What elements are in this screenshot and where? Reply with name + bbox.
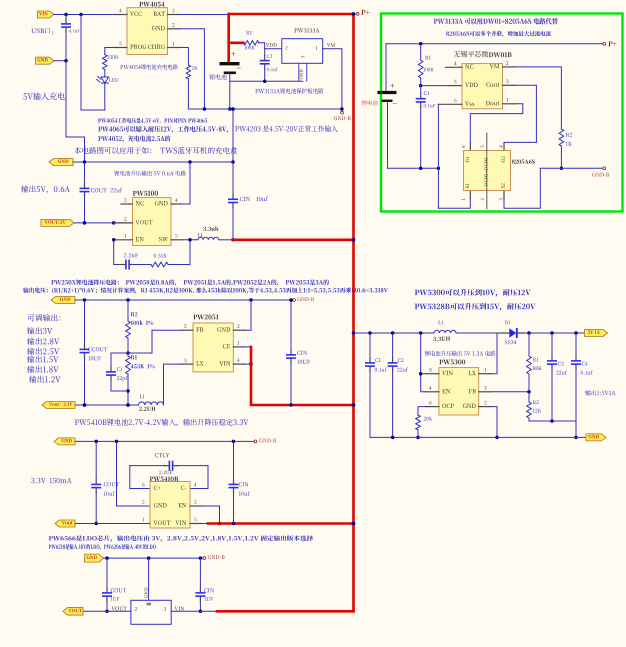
- wire GND-B line green: [540, 167, 602, 169]
- note PW250X row: [51, 279, 329, 285]
- port P+ green: [603, 41, 617, 46]
- note row2: [98, 125, 337, 133]
- power flag GND sec5: [586, 434, 606, 441]
- note boost 1.3A: [425, 351, 496, 356]
- pin 2 8205 stub: [481, 191, 487, 209]
- resistor 330R: [103, 55, 119, 70]
- pin 2 VM dw01: [490, 61, 515, 68]
- note 3.3V 150mA: [31, 478, 71, 483]
- capacitor C4 0.1uf: [571, 333, 593, 421]
- note LDO row1: [49, 535, 313, 541]
- power flag GND sec6: [54, 438, 75, 445]
- pin 5 8205 stub: [481, 133, 487, 151]
- green substitute box: [381, 14, 623, 212]
- wire LX to L1: [164, 364, 182, 405]
- pin 5 VDD dw01: [454, 80, 478, 87]
- note PW5410B title: [75, 419, 249, 427]
- power flag 5V 1A: [585, 330, 608, 337]
- wire PROG to R330: [105, 48, 114, 55]
- pin 4 VIN sec3: [219, 358, 245, 365]
- pin 1 CE: [223, 341, 245, 348]
- wire battery+ drop red: [227, 14, 230, 62]
- pin 3 LX: [181, 358, 204, 365]
- wire output red sec2: [233, 238, 355, 242]
- resistor 0.51R snubber: [134, 254, 168, 267]
- pin 5 FB: [181, 324, 203, 331]
- pin 1 VOUT sec6: [142, 518, 170, 525]
- pin 1 S1 8205: [462, 184, 469, 201]
- battery BT1 cell: [209, 52, 241, 80]
- capacitor CIN 1UF: [195, 558, 214, 613]
- wire VOUT net: [74, 221, 133, 225]
- battery BT2 cell: [362, 84, 397, 106]
- node spine junction sec2: [352, 238, 356, 242]
- node VIN junction at C4.7uf: [64, 13, 68, 17]
- pin 3 NC: [121, 198, 144, 205]
- wire LED anode return to VIN: [81, 15, 105, 111]
- wire GND net down to section2: [66, 61, 85, 162]
- wire R1 to VDD: [259, 43, 282, 49]
- chip U8 PW5410B: [150, 477, 190, 528]
- capacitor C1 0.1uf sec5: [365, 333, 387, 437]
- wire S2 to GND-B: [504, 168, 540, 208]
- wire SW to L1: [182, 239, 198, 241]
- node spine junction sec5 rail: [352, 331, 356, 335]
- power flag VOUT:5V: [41, 219, 74, 226]
- chip U1 PW4054: [127, 2, 168, 55]
- node B+ corner: [352, 12, 356, 16]
- wire B+ spine red: [352, 14, 355, 611]
- pin 5 VIN sec6: [175, 518, 202, 525]
- wire GND line sec3: [75, 298, 293, 302]
- capacitor C1 22pf: [106, 353, 128, 391]
- power flag VOUT sec7: [63, 608, 83, 616]
- resistor 2K: [186, 65, 197, 79]
- resistor 20k OCP: [416, 415, 432, 439]
- pin 4 EN sec5: [426, 386, 450, 393]
- capacitor CTLY 2.2UF: [130, 453, 208, 488]
- wire Dout to G1: [470, 104, 523, 151]
- power flag GND sec7: [85, 554, 104, 562]
- wire Vout net sec3: [75, 403, 139, 407]
- resistor R2 100k: [126, 300, 153, 355]
- note green title: [434, 18, 558, 24]
- wire VDD green: [421, 85, 462, 87]
- pin 3 S2 8205: [499, 183, 505, 200]
- wire GND pin riser sec3: [245, 300, 251, 330]
- wire BAT to B+ net: [180, 14, 229, 16]
- chip U9 LDO: [131, 600, 171, 624]
- pin 6 G1 8205: [462, 145, 469, 162]
- pin 2 GND sec6: [142, 500, 166, 507]
- capacitor CCOUT 10UF: [80, 300, 108, 407]
- capacitor COUT 1UF: [102, 558, 126, 613]
- capacitor 4.7uf input: [61, 15, 79, 61]
- pin 4 VCC: [114, 9, 142, 16]
- wire VOUT net sec6: [75, 523, 150, 525]
- wire Cout to G2: [504, 85, 536, 150]
- resistor R1 100R green: [418, 44, 433, 88]
- resistor R1 88K: [527, 333, 542, 392]
- chip U2 PW3133A: [282, 28, 323, 63]
- note boost circuit: [114, 171, 186, 176]
- wire B+ red top: [229, 13, 354, 16]
- wire OCP to 20k: [418, 407, 426, 415]
- wire EN drop: [202, 506, 221, 525]
- wire 2K to GND-B line: [187, 79, 189, 109]
- pin 4 G2 8205: [499, 145, 505, 162]
- pin 2 GND sec5: [463, 401, 490, 408]
- node VIN junction LED return: [79, 13, 83, 17]
- wire LX riser: [490, 333, 497, 374]
- note formula row: [23, 287, 388, 293]
- wire VM to R2: [515, 67, 561, 129]
- power flag GND sec2: [49, 159, 73, 166]
- wire VIN red sec6: [202, 522, 355, 526]
- wire S1 to battery-: [438, 191, 470, 209]
- port P+ top: [356, 10, 370, 15]
- pin VIN sec7: [171, 607, 217, 612]
- pin 6 OCP: [426, 401, 454, 408]
- resistor R2 1K green: [559, 129, 572, 170]
- note row4: [74, 147, 237, 154]
- pin 4 C-: [181, 483, 197, 490]
- note PW5328B title: [415, 303, 536, 311]
- capacitor C3 22uf: [547, 333, 567, 421]
- port GND-B sec1: [334, 107, 351, 120]
- pin 5 VIN sec5: [426, 368, 453, 375]
- wire Vss riser: [437, 104, 439, 208]
- LED D indicator: [96, 76, 118, 83]
- wire battery2- stem: [388, 102, 441, 170]
- wire R1 feed red: [229, 41, 244, 44]
- pin 1 EN: [114, 234, 144, 241]
- power flag GND (input): [36, 57, 54, 64]
- pin 3 GND PW3133A: [299, 63, 307, 81]
- wire GND line sec6: [75, 440, 254, 444]
- note PW3133A circuit: [255, 88, 323, 94]
- wire 5V rail: [517, 331, 586, 335]
- note LDO row2: [49, 544, 156, 550]
- pin 3 Cout dw01: [486, 80, 515, 87]
- pin 1 Dout dw01: [486, 98, 515, 105]
- node spine junction sec6: [352, 522, 356, 526]
- capacitor CIN 10uf sec6: [229, 441, 251, 523]
- note row3: [98, 135, 170, 142]
- capacitor CIN 10UF sec3: [286, 298, 310, 407]
- port GND-B sec6: [254, 439, 276, 443]
- wire GND line sec7: [104, 556, 203, 560]
- note output 5V1A: [585, 390, 615, 395]
- wire VIN red down: [251, 364, 355, 407]
- wire VIN/EN riser sec5: [419, 333, 426, 392]
- node spine junction top: [352, 12, 356, 16]
- pin 3 FB sec5: [469, 386, 490, 393]
- node spine junction sec3: [352, 403, 356, 407]
- note output 5V: [21, 185, 70, 193]
- chip U5 DW01B: [454, 51, 512, 109]
- resistor R1 100R: [244, 31, 259, 49]
- wire GND pin to GND-B line: [180, 29, 204, 109]
- wire GND rail sec5: [370, 436, 585, 440]
- wire GND flag to cap: [54, 59, 68, 63]
- wire EN snubber left: [112, 238, 121, 264]
- wire divider bottom bus: [529, 419, 576, 423]
- chip U4 PW2051: [193, 314, 233, 371]
- power flag Vout sec6: [55, 520, 75, 527]
- wire battery- stem: [228, 74, 232, 111]
- chip U7 PW5300: [439, 359, 479, 415]
- wire C4 bus drop: [574, 421, 578, 439]
- chip U3 PW5100: [133, 191, 172, 246]
- pin 3 BAT: [153, 9, 180, 16]
- pin 4 GND sec2: [155, 198, 182, 205]
- wire CE red: [245, 347, 251, 364]
- capacitor COUT 22uf: [80, 162, 123, 225]
- capacitor COUT 10uf sec6: [91, 441, 119, 525]
- pin 5 SW: [159, 234, 182, 241]
- power flag VIN: [37, 11, 54, 18]
- resistor R2 12K: [527, 392, 542, 421]
- note PW4054 circuit: [120, 64, 178, 69]
- capacitor C1 0.1uf prot: [260, 49, 278, 82]
- inductor L1 3.3uh: [198, 226, 219, 239]
- pin 6 Vss dw01: [438, 99, 474, 106]
- wire GND-B drop to section2: [231, 107, 235, 162]
- port GND-B sec3: [293, 297, 314, 301]
- capacitor 2.2nF snubber: [121, 253, 138, 269]
- pin 1 VM wire: [323, 43, 342, 107]
- note adjustable list: [27, 314, 61, 383]
- wire LED cathode down: [104, 83, 106, 110]
- note row1: [98, 118, 207, 124]
- wire L1 to D1: [456, 332, 509, 334]
- wire VIN rail sec5: [355, 331, 434, 335]
- port GND-B sec7: [203, 555, 225, 559]
- wire GND-B bottom line: [188, 107, 340, 111]
- wire GND pin riser sec6: [117, 441, 151, 506]
- wire battery2 drop: [385, 44, 387, 91]
- diode D1 SS34: [498, 321, 524, 344]
- pin 5 PROG: [114, 42, 147, 49]
- pin 2 GND sec3: [217, 324, 245, 331]
- wire VIN red node: [245, 362, 253, 366]
- inductor L1 2.2UH: [139, 395, 164, 411]
- pin 4 NC dw01: [445, 62, 473, 69]
- capacitor CIN 10uf sec2: [228, 162, 268, 240]
- wire GND pin drop sec5: [490, 407, 499, 440]
- capacitor C1 0.1uF green: [416, 86, 436, 170]
- power flag Vout 3.3V: [42, 402, 75, 409]
- wire P+ rail green: [386, 42, 603, 46]
- note title 5V input: [23, 92, 64, 100]
- wire R330 to LED: [104, 70, 106, 78]
- wire FB net: [128, 330, 181, 353]
- pin 1 CHRG: [148, 42, 180, 49]
- wire GND riser sec7: [144, 558, 148, 600]
- resistor R1 453K: [126, 353, 155, 407]
- note PW5300 title: [415, 289, 531, 297]
- wire VIN net: [54, 14, 114, 16]
- wire snubber to SW: [168, 238, 192, 264]
- pin VOUT sec7: [83, 607, 131, 612]
- pin 6 C+: [142, 483, 160, 490]
- inductor L1 3.3UH sec5: [433, 321, 456, 341]
- pin 3 EN sec6: [178, 500, 202, 507]
- label USB port: [31, 28, 53, 34]
- pin 1 LX: [469, 368, 490, 375]
- note green subtitle: [446, 31, 551, 37]
- port GND-B green: [592, 167, 609, 177]
- wire GND line sec2: [73, 160, 235, 164]
- wire cell- bus: [230, 80, 303, 84]
- wire GND pin riser: [182, 162, 190, 204]
- pin 2 VOUT: [114, 217, 153, 224]
- wire VIN red sec7: [217, 610, 354, 613]
- wire FB to divider: [490, 390, 531, 394]
- power flag GND sec3: [51, 297, 75, 304]
- pin 2 GND: [152, 23, 180, 30]
- wire L1 to node: [219, 238, 235, 242]
- capacitor C2 22uf sec5: [388, 333, 408, 437]
- wire CHRG to 2K: [180, 48, 188, 66]
- chip U6 8205A6S: [464, 151, 535, 191]
